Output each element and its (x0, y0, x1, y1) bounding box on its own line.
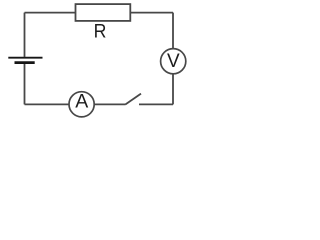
switch blade (open) (125, 94, 141, 105)
wire bottom right (switch contact to corner) (139, 103, 173, 105)
wire top (left corner to right corner, passes under resistor) (25, 12, 174, 14)
wire left lower (battery down to bottom corner) (24, 63, 26, 105)
battery cell: long positive plate (8, 57, 42, 59)
battery cell: short negative plate (15, 61, 35, 64)
resistor R body (76, 4, 131, 21)
ammeter A body (69, 92, 94, 117)
wire left upper (top corner down to battery) (24, 13, 26, 57)
voltmeter V body (161, 49, 186, 74)
wire bottom left (corner through ammeter to switch pivot) (25, 103, 126, 105)
wire right (top corner down through voltmeter to bottom corner) (172, 13, 174, 105)
svg-text:V: V (167, 51, 180, 72)
svg-text:R: R (94, 20, 107, 42)
svg-text:A: A (75, 91, 88, 113)
